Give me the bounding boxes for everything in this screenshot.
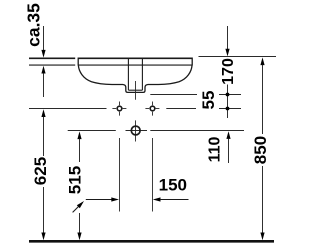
countertop section left <box>29 58 75 65</box>
dimension 850 <box>251 57 270 240</box>
dimension 170 <box>220 26 237 118</box>
dimension 515 <box>65 131 84 240</box>
fixation hole right <box>150 102 155 116</box>
floor line <box>29 240 274 243</box>
svg-text:515: 515 <box>65 166 84 194</box>
svg-text:625: 625 <box>31 157 50 185</box>
svg-text:55: 55 <box>199 91 218 110</box>
drain channel <box>128 59 142 91</box>
svg-text:850: 850 <box>251 136 270 164</box>
centerline siphon row y=130.4 <box>68 130 244 132</box>
basin front view <box>78 58 192 93</box>
hole extension verticals <box>120 138 153 212</box>
svg-text:150: 150 <box>159 175 187 194</box>
dimension 625 <box>31 109 50 240</box>
centerline fixation holes row y=108.8 <box>29 108 241 110</box>
svg-text:ca.35: ca.35 <box>23 3 43 47</box>
dimension ca.35 <box>23 3 45 97</box>
extension line rim level right y=56.5 <box>199 56 277 58</box>
center axis <box>135 81 137 142</box>
dimension 150 <box>86 175 189 201</box>
dimension 110 <box>207 131 231 163</box>
svg-text:170: 170 <box>220 58 237 85</box>
siphon circle <box>131 126 140 135</box>
svg-text:110: 110 <box>207 136 224 162</box>
fixation hole left <box>117 102 122 116</box>
extension line drain level y=94.2 <box>150 94 241 96</box>
leader arrow diagonal <box>73 201 84 212</box>
